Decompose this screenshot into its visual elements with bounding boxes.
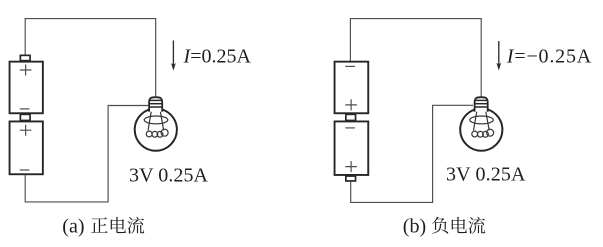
svg-text:I=−0.25A: I=−0.25A xyxy=(506,45,592,67)
svg-text:(a): (a) xyxy=(62,215,84,237)
svg-text:3V 0.25A: 3V 0.25A xyxy=(446,163,526,185)
svg-text:I=0.25A: I=0.25A xyxy=(183,46,252,68)
svg-text:3V 0.25A: 3V 0.25A xyxy=(129,164,209,186)
svg-text:(b): (b) xyxy=(403,215,426,237)
